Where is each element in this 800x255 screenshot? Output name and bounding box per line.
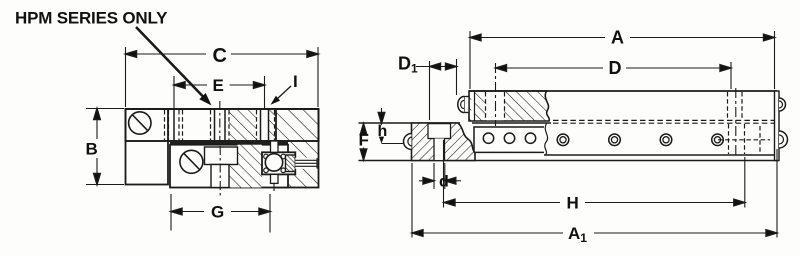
dim d xyxy=(419,180,434,182)
hidden detail right zone xyxy=(718,92,770,154)
counterbore cutout xyxy=(428,124,451,139)
carriage top plate section xyxy=(469,91,549,121)
break line wavy xyxy=(545,124,548,156)
slot cutout xyxy=(434,139,445,160)
dim A xyxy=(470,37,605,39)
carriage hole white xyxy=(486,92,504,120)
rail left end block xyxy=(412,123,476,161)
dim H extension line right xyxy=(744,157,746,208)
dim D xyxy=(496,67,604,69)
node bearing centerline stub xyxy=(273,184,275,192)
svg-text:HPM SERIES ONLY: HPM SERIES ONLY xyxy=(15,9,168,28)
rail top edge hidden xyxy=(553,122,775,124)
socket screw 4 xyxy=(712,134,724,146)
node slot centerline / H ext xyxy=(443,140,445,208)
base body top band xyxy=(126,109,319,141)
bearing small balls xyxy=(264,154,269,159)
bumper top xyxy=(779,98,786,111)
node hidden centerline xyxy=(735,88,737,158)
rail plug left xyxy=(404,134,412,150)
bearing ball xyxy=(265,154,282,171)
set screw shank xyxy=(295,158,317,169)
carriage white strip xyxy=(471,92,474,120)
plate hole 3 xyxy=(525,133,535,143)
svg-text:C: C xyxy=(213,45,227,67)
carriage dark top strip xyxy=(170,140,288,144)
dim F xyxy=(363,123,365,133)
svg-text:F: F xyxy=(359,131,369,150)
svg-text:G: G xyxy=(211,203,224,222)
carriage bottom hidden xyxy=(553,119,775,121)
node carriage centerline xyxy=(219,146,221,196)
slot above bearing xyxy=(271,141,279,152)
text labels right view xyxy=(359,28,625,246)
svg-text:h: h xyxy=(378,123,388,140)
hatched zone band right xyxy=(269,109,277,141)
dim h xyxy=(381,108,383,114)
dim D1 extension lines xyxy=(429,61,431,120)
dim A extension lines xyxy=(469,31,471,89)
rail bottom flange line xyxy=(359,160,780,162)
socket screw 3 xyxy=(660,134,672,146)
plate hole 2 xyxy=(504,133,514,143)
rail top edge left solid xyxy=(359,122,461,124)
bumper bottom xyxy=(779,131,787,148)
dim C extension lines xyxy=(125,47,127,107)
bearing housing xyxy=(262,152,295,174)
screw S1 head xyxy=(129,112,151,134)
HPM leader xyxy=(136,27,203,97)
svg-text:B: B xyxy=(86,140,98,159)
right end cap xyxy=(775,91,780,161)
svg-text:H: H xyxy=(567,194,579,213)
node E centerline xyxy=(219,101,221,146)
dim E xyxy=(174,84,207,86)
hatched zone band center xyxy=(229,109,257,141)
dim B xyxy=(96,109,98,140)
carriage top edge xyxy=(469,90,777,92)
node carriage hole centerline / D ext xyxy=(495,63,497,126)
socket screw 1 xyxy=(557,134,723,146)
svg-text:A1: A1 xyxy=(568,224,587,245)
dim D extension line right xyxy=(730,62,732,89)
dim d extension lines xyxy=(433,163,435,189)
rail band bottom right of break xyxy=(544,154,779,156)
text labels left view xyxy=(15,9,298,222)
carriage plug xyxy=(464,97,469,113)
svg-text:E: E xyxy=(213,76,224,95)
dim D1 xyxy=(416,66,457,68)
dim G xyxy=(171,211,204,213)
svg-text:d: d xyxy=(439,174,449,191)
dim C xyxy=(126,53,207,55)
svg-text:I: I xyxy=(293,72,298,91)
dim G extension lines xyxy=(170,194,172,231)
carriage hole hidden lines xyxy=(485,92,487,121)
svg-text:A: A xyxy=(611,28,624,48)
svg-text:D: D xyxy=(609,58,622,78)
left wall block xyxy=(126,109,169,185)
dim H xyxy=(444,202,560,204)
dim E extension lines xyxy=(173,76,175,108)
carriage hatch right xyxy=(238,145,263,188)
plug centerline xyxy=(382,143,405,145)
set screw tip xyxy=(286,155,296,172)
label I leader xyxy=(277,86,291,99)
screw S2 head xyxy=(180,150,203,173)
svg-text:D1: D1 xyxy=(398,54,418,76)
dim B extension lines xyxy=(86,108,124,110)
wire solid slot lines in band xyxy=(173,109,175,141)
socket screw 2 xyxy=(609,134,621,146)
carriage step block xyxy=(205,147,238,165)
hidden slot lines left pair xyxy=(165,110,275,140)
right wall block xyxy=(276,109,319,188)
dim A1 extension lines xyxy=(411,163,413,238)
dim A1 xyxy=(412,232,563,234)
plate hole 1 xyxy=(483,133,493,143)
band outline redraw xyxy=(126,109,319,141)
carriage body xyxy=(170,145,288,188)
slot below bearing xyxy=(271,174,279,183)
intermediate plate with holes xyxy=(474,127,544,152)
carriage lower step xyxy=(211,165,229,188)
